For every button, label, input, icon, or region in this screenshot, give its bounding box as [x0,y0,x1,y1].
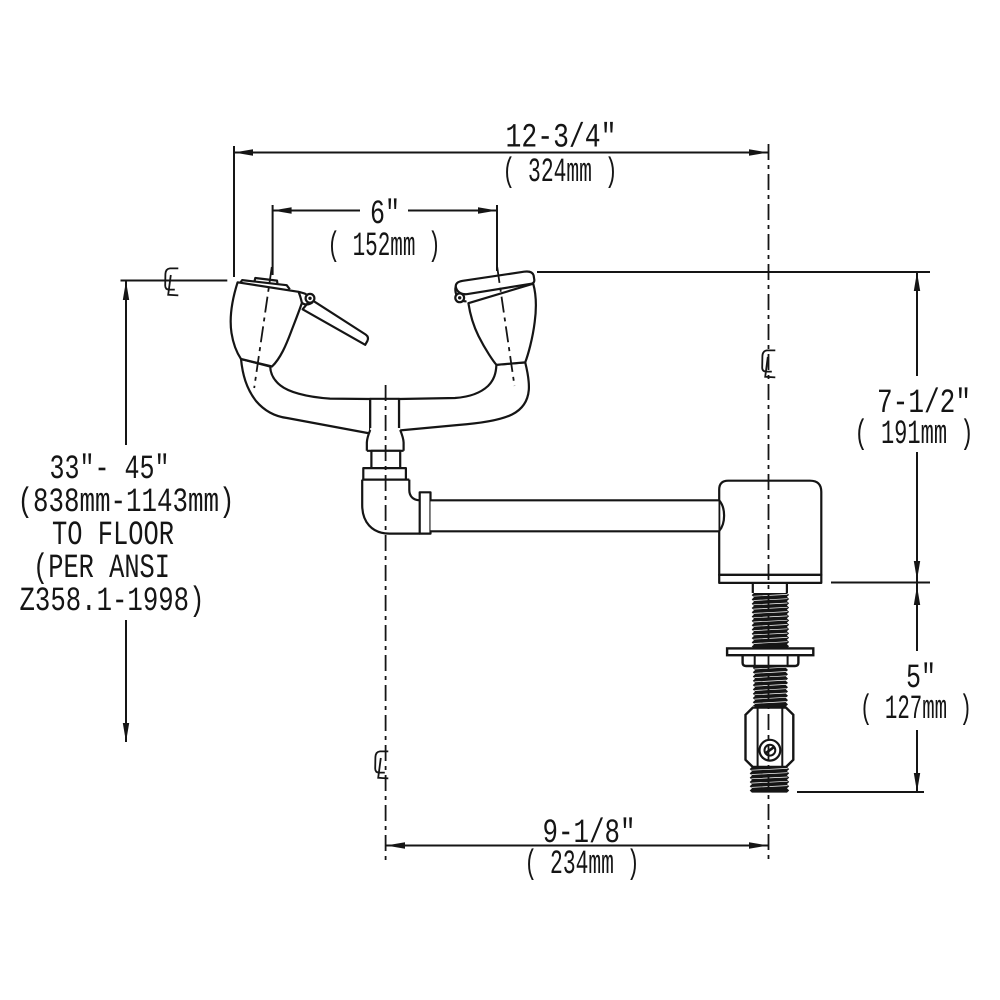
dimension 9-1/8in arrow right [749,842,768,848]
lock nut [743,655,799,666]
dimension 6in extension line right [496,205,498,271]
stem lower ring [371,451,400,468]
dimension 9-1/8in arrow left [386,842,405,848]
dimension 7-1/2in arrow down [914,561,920,580]
bleed screw [760,740,781,761]
valve vertical centerline [768,144,770,860]
svg-text:( 234mm ): ( 234mm ) [525,846,640,884]
right vertical dimension line segments [916,272,918,792]
left head cap edge to hinge [299,292,307,295]
dimension 5in arrow up [914,586,920,605]
left head hinge pin [306,294,315,303]
center vertical centerline [385,385,387,862]
left supply arm [241,359,370,434]
upper thread [752,593,789,648]
mounting flange plate [727,648,813,655]
fixture body group [231,271,822,593]
threaded sections [727,593,813,793]
dimension 33-45in top reference line [121,280,228,282]
svg-text:( 191mm ): ( 191mm ) [855,416,974,454]
middle thread [753,666,788,707]
dimension 33-45in vertical line lower segment [125,620,127,742]
valve body [719,481,821,575]
shank neck [753,583,787,593]
svg-text:( 127mm ): ( 127mm ) [860,691,972,729]
dimension 6in arrow left [273,207,292,213]
svg-text:( 324mm ): ( 324mm ) [503,154,618,192]
left eyewash head cup [231,282,302,366]
centerline symbol bottom [375,751,388,778]
dimension 6in line right segment [408,210,497,212]
right supply arm [399,362,529,430]
left head flip lever [303,299,368,345]
right eyewash head cup [468,284,535,365]
dimension 33-45in arrow down [123,723,129,742]
lower thread [750,767,790,793]
dimension 12-3/4in line [234,152,768,154]
dimension 5in bottom extension line [797,791,924,793]
dimension 5in arrow down [914,773,920,792]
right head hinge hook [455,287,466,302]
dimension 33-45in vertical line upper segment [125,281,127,445]
dimension 7-1/2in mid extension line [831,582,930,584]
dimension 6in arrow right [478,207,497,213]
right head cover flap [456,271,535,294]
dimension 12-3/4in arrow right [749,149,768,155]
center tee stem [370,399,399,432]
horizontal supply pipe [431,500,719,531]
union flange ring [363,468,406,480]
elbow collar [420,492,431,533]
dimension 12-3/4in extension line left [233,146,235,277]
pipe end arc inside valve [719,500,724,531]
dimension 9-1/8in line [386,845,768,847]
svg-text:12-3/4": 12-3/4" [506,120,617,158]
hex coupling [746,708,794,767]
left head cap step outer [240,280,289,289]
svg-text:( 152mm ): ( 152mm ) [328,228,441,266]
dimension 7-1/2in top extension line [537,271,930,273]
centerline symbol right [762,350,775,377]
stem shoulder flare [367,428,404,451]
left head cap step inner [255,278,278,283]
left head hinge knuckle [302,302,313,304]
dimension 12-3/4in arrow left [234,149,253,155]
elbow fitting [362,480,420,534]
dimension 6in line left segment [273,210,360,212]
dimension 7-1/2in arrow up [914,272,920,291]
dimension 6in extension line left [272,205,274,275]
valve body bottom band [719,575,821,583]
svg-text:Z358.1-1998): Z358.1-1998) [20,583,205,621]
centerline symbol left [165,268,178,295]
right head tilted centerline [497,267,514,386]
left head tilted centerline [254,267,272,388]
dimension 33-45in arrow up [123,281,129,300]
right head hinge pin [455,293,464,302]
